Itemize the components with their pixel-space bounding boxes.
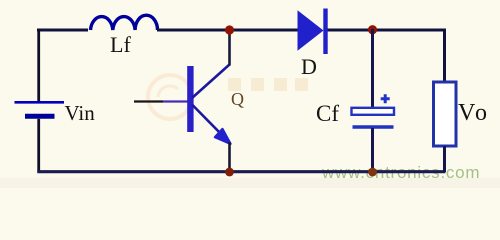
svg-text:V: V bbox=[458, 100, 476, 126]
svg-text:D: D bbox=[301, 54, 317, 79]
wire left vertical lower bbox=[37, 119, 40, 172]
inductor Lf bbox=[91, 15, 158, 30]
capacitor Cf plus sign bbox=[381, 94, 390, 103]
node capacitor bottom junction bbox=[368, 168, 377, 177]
node diode-cap junction bbox=[368, 25, 377, 34]
svg-text:Vin: Vin bbox=[65, 101, 96, 125]
wire bottom rail bbox=[37, 170, 445, 173]
transistor Q emitter bbox=[192, 105, 223, 137]
resistor Vo body bbox=[434, 82, 457, 146]
transistor Q collector bbox=[192, 65, 230, 99]
transistor Q bar bbox=[187, 66, 193, 132]
wire capacitor top lead bbox=[371, 29, 374, 108]
wire resistor bottom lead bbox=[443, 146, 446, 172]
wire collector to top rail bbox=[228, 29, 231, 66]
wire left vertical upper bbox=[37, 29, 40, 101]
svg-text:Cf: Cf bbox=[316, 101, 339, 126]
svg-text:Lf: Lf bbox=[110, 32, 131, 57]
svg-text:Q: Q bbox=[231, 89, 244, 109]
wire top rail left bbox=[37, 29, 88, 32]
battery Vin bottom plate bbox=[25, 114, 55, 119]
node emitter junction bbox=[225, 168, 234, 177]
svg-text:o: o bbox=[475, 100, 487, 126]
wire emitter to bottom rail bbox=[228, 142, 231, 172]
diode D cathode bar bbox=[323, 9, 327, 55]
battery Vin top plate bbox=[15, 101, 65, 104]
transistor Q emitter arrow bbox=[215, 129, 231, 144]
diode D triangle bbox=[298, 10, 324, 51]
bottom tint bbox=[0, 178, 500, 188]
watermark logo ring bbox=[148, 75, 192, 119]
transistor Q base lead bbox=[134, 100, 163, 102]
wire top rail middle bbox=[157, 29, 299, 32]
node collector junction bbox=[225, 25, 234, 34]
wire top rail right bbox=[326, 30, 445, 82]
wire capacitor bottom lead bbox=[371, 128, 374, 172]
capacitor Cf bottom plate bbox=[353, 125, 394, 128]
watermark glyphs bbox=[228, 78, 308, 91]
capacitor Cf top plate bbox=[352, 108, 395, 115]
